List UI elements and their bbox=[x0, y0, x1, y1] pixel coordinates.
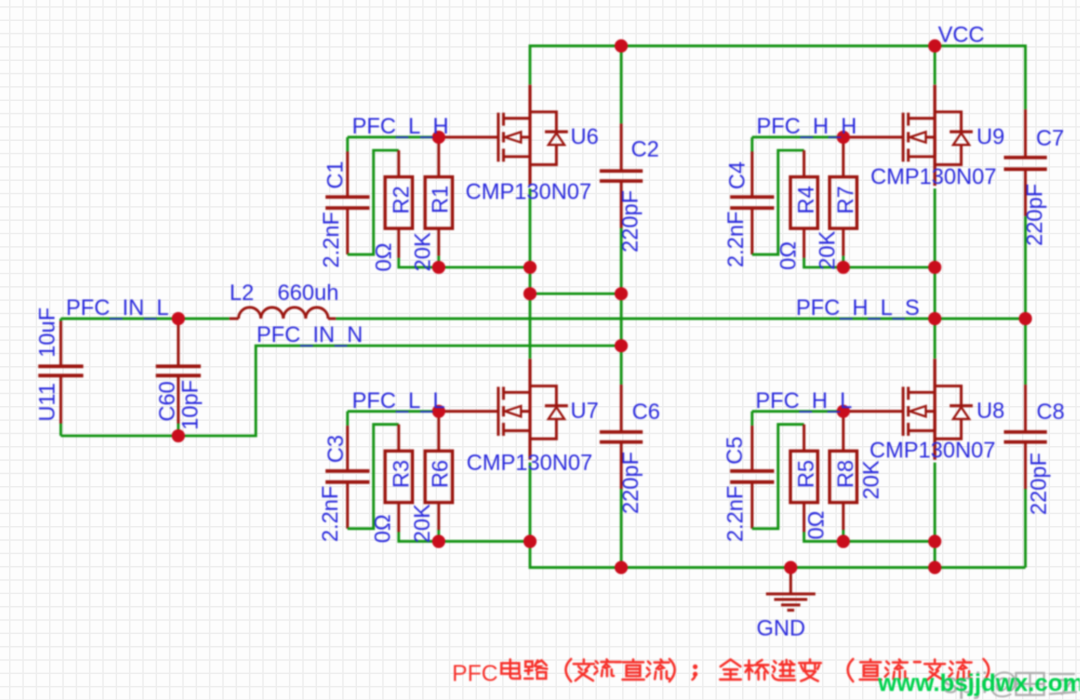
svg-text:0Ω: 0Ω bbox=[804, 511, 829, 540]
svg-text:2.2nF: 2.2nF bbox=[318, 486, 343, 542]
svg-text:U8: U8 bbox=[977, 398, 1005, 423]
svg-text:660uh: 660uh bbox=[278, 280, 339, 305]
svg-text:R6: R6 bbox=[428, 460, 453, 488]
svg-text:20K: 20K bbox=[859, 460, 884, 499]
svg-text:220pF: 220pF bbox=[618, 452, 643, 514]
svg-text:CMP130N07: CMP130N07 bbox=[467, 450, 593, 475]
svg-text:R7: R7 bbox=[833, 186, 858, 214]
svg-text:PFC_IN_L: PFC_IN_L bbox=[66, 295, 169, 320]
svg-text:C2: C2 bbox=[631, 137, 659, 162]
svg-text:U6: U6 bbox=[571, 124, 599, 149]
svg-text:PFC_L_H: PFC_L_H bbox=[352, 114, 449, 139]
svg-text:C3: C3 bbox=[323, 435, 348, 463]
svg-text:CMP130N07: CMP130N07 bbox=[870, 438, 996, 463]
svg-text:R1: R1 bbox=[428, 185, 453, 213]
svg-text:R2: R2 bbox=[389, 186, 414, 214]
svg-text:PFC_H_H: PFC_H_H bbox=[757, 114, 857, 139]
svg-text:VCC: VCC bbox=[938, 22, 985, 47]
svg-text:GND: GND bbox=[757, 616, 806, 641]
svg-text:PFC_L_L: PFC_L_L bbox=[352, 388, 445, 413]
svg-text:PFC_H_L_S: PFC_H_L_S bbox=[796, 295, 920, 320]
svg-text:220pF: 220pF bbox=[1022, 184, 1047, 246]
svg-text:R8: R8 bbox=[833, 460, 858, 488]
svg-text:U9: U9 bbox=[977, 124, 1005, 149]
svg-text:C8: C8 bbox=[1037, 399, 1065, 424]
svg-text:C1: C1 bbox=[323, 161, 348, 189]
svg-text:10pF: 10pF bbox=[178, 380, 203, 430]
svg-text:L2: L2 bbox=[230, 280, 254, 305]
svg-text:www.bsjjdwx.com: www.bsjjdwx.com bbox=[877, 670, 1080, 697]
svg-text:C7: C7 bbox=[1036, 126, 1064, 151]
svg-text:10uF: 10uF bbox=[35, 307, 60, 357]
svg-text:20K: 20K bbox=[815, 231, 840, 270]
svg-text:C6: C6 bbox=[632, 399, 660, 424]
svg-text:PFC_H_L: PFC_H_L bbox=[756, 388, 853, 413]
svg-text:C4: C4 bbox=[725, 161, 750, 189]
svg-text:0Ω: 0Ω bbox=[776, 241, 801, 270]
svg-text:20K: 20K bbox=[410, 504, 435, 543]
svg-text:U7: U7 bbox=[571, 398, 599, 423]
svg-text:2.2nF: 2.2nF bbox=[319, 212, 344, 268]
svg-text:PFC: PFC bbox=[452, 660, 498, 686]
svg-text:20K: 20K bbox=[410, 232, 435, 271]
svg-text:R5: R5 bbox=[794, 460, 819, 488]
svg-text:220pF: 220pF bbox=[1026, 453, 1051, 515]
svg-text:CMP130N07: CMP130N07 bbox=[466, 179, 592, 204]
svg-text:C5: C5 bbox=[722, 436, 747, 464]
svg-text:PFC_IN_N: PFC_IN_N bbox=[257, 322, 363, 347]
svg-text:C60: C60 bbox=[155, 381, 180, 421]
svg-text:220pF: 220pF bbox=[618, 190, 643, 252]
svg-text:CMP130N07: CMP130N07 bbox=[871, 164, 997, 189]
svg-text:R3: R3 bbox=[389, 460, 414, 488]
svg-text:2.2nF: 2.2nF bbox=[723, 486, 748, 542]
svg-text:0Ω: 0Ω bbox=[370, 514, 395, 543]
svg-text:U11: U11 bbox=[35, 383, 60, 422]
svg-text:R4: R4 bbox=[794, 186, 819, 214]
svg-text:0Ω: 0Ω bbox=[371, 243, 396, 272]
svg-text:2.2nF: 2.2nF bbox=[723, 211, 748, 267]
